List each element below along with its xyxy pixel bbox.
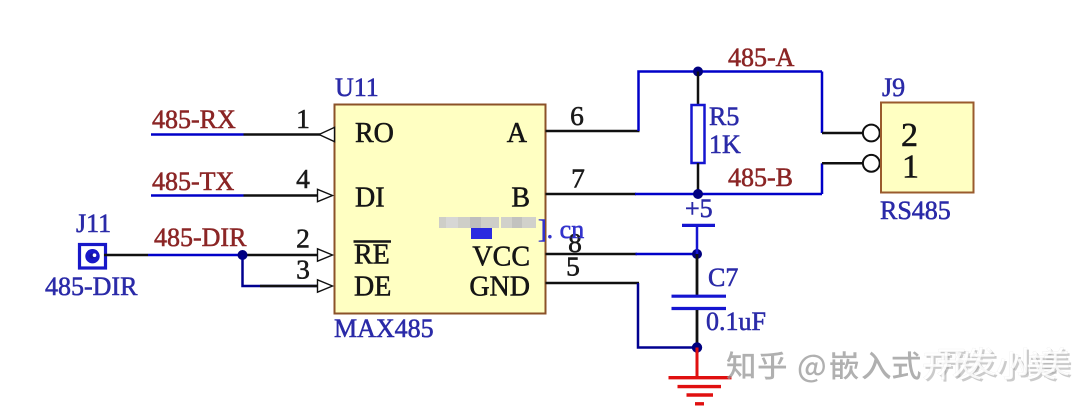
wire VCC net bbox=[636, 253, 698, 256]
svg-text:1K: 1K bbox=[709, 130, 741, 159]
wire B up to J9 pin1 bbox=[821, 163, 824, 194]
IC U11 body bbox=[335, 105, 546, 314]
wire to J9 pin 2 bbox=[822, 132, 864, 135]
pin 2 input triangle bbox=[318, 249, 333, 261]
pin 4 wire bbox=[244, 194, 318, 197]
svg-text:7: 7 bbox=[571, 163, 585, 194]
wire A down to J9 pin2 bbox=[821, 72, 824, 134]
pin 2 wire bbox=[243, 254, 318, 257]
pin 1 wire bbox=[244, 133, 321, 136]
svg-text:J9: J9 bbox=[882, 73, 905, 102]
svg-text:+5: +5 bbox=[685, 194, 713, 223]
pin 4 input triangle bbox=[318, 189, 333, 201]
capacitor C7 bbox=[672, 254, 727, 348]
svg-text:GND: GND bbox=[469, 272, 530, 303]
svg-text:2: 2 bbox=[296, 223, 310, 254]
wire A up bbox=[639, 72, 823, 132]
pin 1 output triangle bbox=[319, 127, 335, 141]
svg-text:C7: C7 bbox=[708, 263, 738, 292]
junction VCC bbox=[692, 249, 702, 259]
svg-text:MAX485: MAX485 bbox=[334, 314, 434, 343]
svg-text:U11: U11 bbox=[335, 73, 379, 102]
junction 485-DIR bbox=[238, 250, 248, 260]
svg-text:485-TX: 485-TX bbox=[152, 167, 235, 196]
svg-text:485-RX: 485-RX bbox=[152, 105, 236, 134]
svg-text:485-DIR: 485-DIR bbox=[45, 272, 138, 301]
watermark blur blocks bbox=[439, 217, 536, 239]
junction GND bbox=[692, 342, 702, 352]
pin 5 wire bbox=[546, 282, 640, 285]
pin 8 wire bbox=[546, 253, 638, 256]
wire J11 to net bbox=[104, 254, 148, 257]
J9 pin 1 pad circle bbox=[863, 155, 880, 172]
svg-text:DE: DE bbox=[354, 272, 391, 303]
pin 3 wire bbox=[260, 285, 317, 288]
svg-text:RS485: RS485 bbox=[880, 196, 951, 225]
svg-text:R5: R5 bbox=[709, 102, 739, 131]
svg-text:6: 6 bbox=[570, 100, 584, 131]
svg-text:RE: RE bbox=[354, 240, 390, 271]
wire to J9 pin 1 bbox=[822, 162, 864, 165]
svg-text:3: 3 bbox=[296, 254, 310, 285]
svg-text:J11: J11 bbox=[76, 209, 111, 238]
ground bbox=[669, 348, 732, 404]
connector J11 bbox=[80, 245, 106, 269]
resistor R5 bbox=[692, 72, 705, 195]
svg-text:0.1uF: 0.1uF bbox=[706, 307, 766, 336]
junction 485-B / R5 bbox=[693, 189, 703, 199]
svg-text:485-A: 485-A bbox=[728, 43, 795, 72]
wire 485-B net bbox=[635, 193, 822, 196]
svg-text:RO: RO bbox=[355, 118, 394, 149]
svg-text:]. cn: ]. cn bbox=[538, 215, 584, 244]
pin 7 wire bbox=[546, 193, 637, 196]
svg-text:VCC: VCC bbox=[472, 242, 530, 273]
watermark zhihu text bbox=[727, 351, 921, 382]
wire 485-RX net bbox=[151, 133, 244, 136]
pin 3 input triangle bbox=[318, 280, 333, 292]
connector J9 body bbox=[881, 103, 974, 193]
J9 pin 2 pad circle bbox=[863, 125, 880, 142]
wire 485-DIR net bbox=[148, 254, 243, 257]
pin 6 wire bbox=[546, 130, 640, 133]
junction 485-A / R5 bbox=[693, 67, 703, 77]
svg-text:A: A bbox=[507, 118, 528, 149]
svg-text:1: 1 bbox=[902, 149, 919, 186]
watermark zhihu bottom-right bbox=[727, 347, 1072, 382]
svg-text:1: 1 bbox=[296, 103, 310, 134]
wire branch to DE bbox=[243, 255, 318, 286]
svg-text:485-B: 485-B bbox=[728, 163, 793, 192]
svg-text:DI: DI bbox=[355, 183, 385, 214]
wire GND net L bbox=[638, 283, 697, 348]
svg-text:B: B bbox=[511, 183, 530, 214]
wire 485-TX net bbox=[151, 194, 244, 197]
svg-text:4: 4 bbox=[296, 163, 310, 194]
power +5 symbol bbox=[682, 225, 715, 254]
svg-text:5: 5 bbox=[566, 251, 580, 282]
svg-text:485-DIR: 485-DIR bbox=[154, 223, 247, 252]
